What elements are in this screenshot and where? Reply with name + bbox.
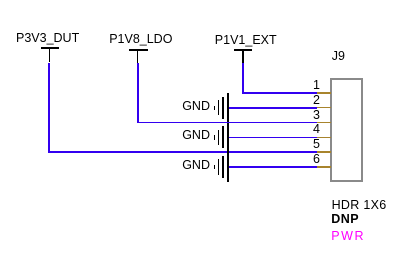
ground symbol GND (pin 6) label bbox=[182, 159, 210, 172]
ground symbol GND (pin 4) label bbox=[182, 129, 210, 142]
pin number 4 bbox=[290, 123, 320, 136]
wire GND to pin 4 bbox=[229, 137, 318, 139]
wire GND to pin 6 bbox=[229, 166, 318, 168]
power symbol P1V1_EXT (bar) bbox=[234, 49, 252, 51]
pin 5 stub bbox=[317, 151, 331, 153]
power symbol P3V3_DUT (bar) bbox=[41, 47, 59, 49]
wire P1V8_LDO vertical bbox=[137, 63, 139, 124]
ground symbol GND (pin 6) bars bbox=[214, 165, 216, 169]
pin number 2 bbox=[290, 94, 320, 107]
power symbol P3V3_DUT (stub) bbox=[49, 49, 51, 62]
pin 3 stub bbox=[317, 122, 331, 124]
connector J9 body bbox=[330, 78, 363, 182]
wire P1V1_EXT vertical bbox=[242, 63, 244, 94]
net label P3V3_DUT bbox=[16, 32, 79, 45]
power symbol P1V8_LDO (bar) bbox=[129, 49, 148, 51]
ground symbol GND (pin 4) bars bbox=[214, 135, 216, 139]
wire P3V3_DUT vertical bbox=[48, 63, 50, 154]
pin 6 stub bbox=[317, 166, 331, 168]
value label HDR 1X6 bbox=[332, 199, 387, 212]
pin 4 stub bbox=[317, 137, 331, 139]
pin number 3 bbox=[290, 109, 320, 122]
power symbol P1V1_EXT (stub) bbox=[242, 51, 244, 63]
label DNP bbox=[331, 213, 359, 226]
power symbol P1V8_LDO (stub) bbox=[137, 51, 139, 63]
pin number 5 bbox=[290, 138, 320, 151]
ground symbol GND (pin 2) bars bbox=[214, 106, 216, 110]
pin 1 stub bbox=[317, 92, 331, 94]
pin number 1 bbox=[290, 79, 320, 92]
wire GND to pin 2 bbox=[229, 107, 318, 109]
net label P1V1_EXT bbox=[215, 34, 277, 47]
label PWR bbox=[331, 230, 365, 243]
wire P1V8_LDO to pin 3 horizontal bbox=[137, 122, 317, 124]
pin number 6 bbox=[290, 153, 320, 166]
pin 2 stub bbox=[317, 107, 331, 109]
net label P1V8_LDO bbox=[109, 33, 172, 46]
ground symbol GND (pin 2) label bbox=[182, 100, 210, 113]
wire P1V1_EXT to pin 1 horizontal bbox=[242, 92, 317, 94]
wire P3V3_DUT to pin 5 horizontal bbox=[48, 151, 317, 153]
reference designator J9 bbox=[332, 50, 345, 63]
